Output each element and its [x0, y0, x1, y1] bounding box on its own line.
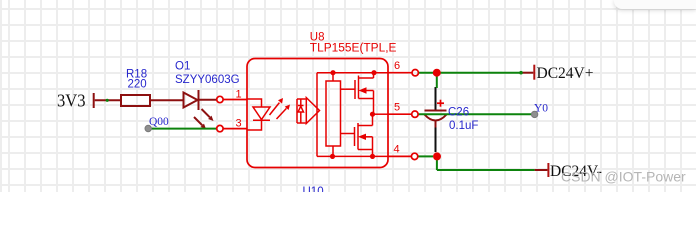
- svg-text:Y0: Y0: [534, 102, 548, 114]
- svg-text:6: 6: [394, 60, 400, 72]
- svg-text:4: 4: [394, 143, 400, 155]
- svg-text:3: 3: [236, 117, 242, 129]
- svg-text:TLP155E(TPL,E: TLP155E(TPL,E: [310, 43, 397, 55]
- svg-text:DC24V+: DC24V+: [537, 65, 594, 82]
- svg-text:Q00: Q00: [149, 116, 169, 128]
- svg-text:5: 5: [394, 101, 400, 113]
- svg-text:SZYY0603G: SZYY0603G: [175, 74, 240, 86]
- svg-text:O1: O1: [175, 60, 190, 72]
- svg-text:3V3: 3V3: [57, 91, 86, 111]
- svg-text:0.1uF: 0.1uF: [449, 120, 478, 132]
- svg-text:CSDN @IOT-Power: CSDN @IOT-Power: [561, 169, 686, 185]
- svg-text:U10: U10: [303, 186, 324, 192]
- svg-text:1: 1: [236, 88, 242, 100]
- svg-text:C26: C26: [448, 107, 469, 119]
- svg-text:220: 220: [128, 79, 147, 91]
